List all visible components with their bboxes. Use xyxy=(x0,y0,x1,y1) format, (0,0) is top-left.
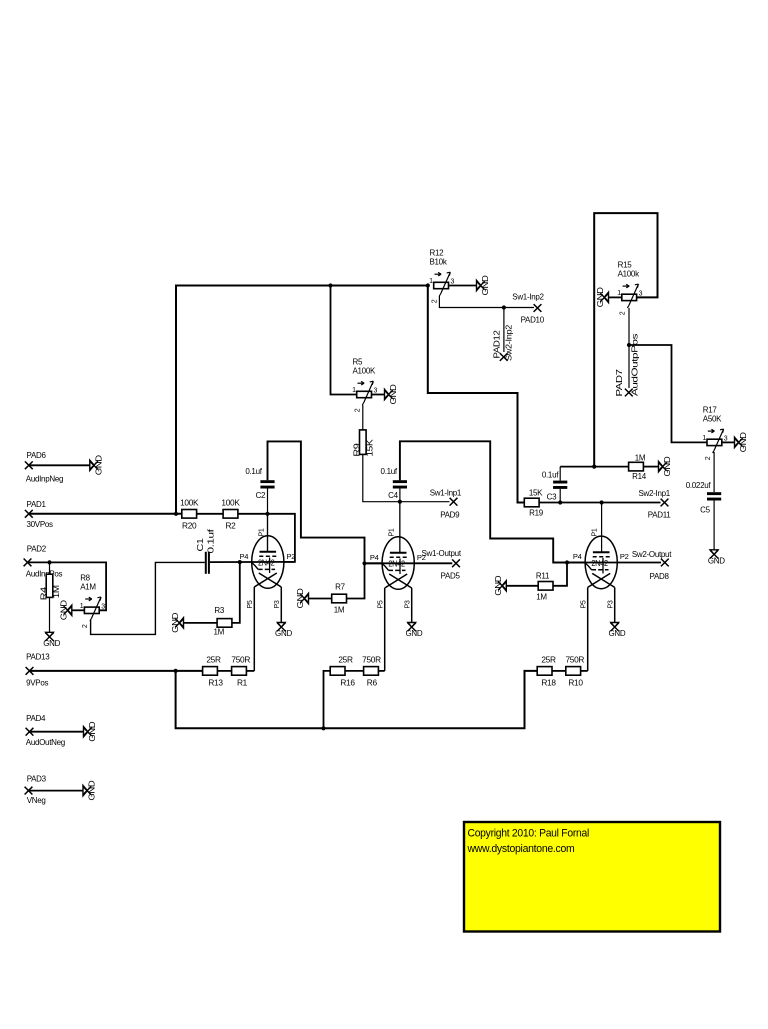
svg-text:C5: C5 xyxy=(700,506,710,515)
wire PAD13 9VPos xyxy=(30,670,203,672)
svg-text:R18: R18 xyxy=(541,678,556,688)
wire PAD4 to GND xyxy=(30,731,84,733)
tube pin P5 lead xyxy=(587,587,589,671)
resistor R2 100K xyxy=(223,510,238,519)
svg-text:Sw2-Output: Sw2-Output xyxy=(632,550,672,559)
ground GND below tube P3 xyxy=(611,623,619,628)
svg-text:3: 3 xyxy=(639,290,643,297)
svg-text:R2: R2 xyxy=(225,521,236,531)
ground GND at PAD4 xyxy=(84,727,88,737)
wire C4 top loop to tube Sw2 P4 xyxy=(400,441,585,562)
wire R16 to R6 xyxy=(345,670,364,672)
svg-text:100K: 100K xyxy=(180,497,199,507)
node junction tube mid P4 xyxy=(362,561,366,565)
svg-text:P5: P5 xyxy=(247,600,254,608)
svg-text:P3: P3 xyxy=(608,600,615,608)
svg-text:AudInpNeg: AudInpNeg xyxy=(26,475,63,484)
svg-text:3: 3 xyxy=(451,279,455,286)
wire R8 pin1 to GND xyxy=(72,609,85,611)
wire top bus (R12 net) xyxy=(176,286,428,514)
svg-text:PAD9: PAD9 xyxy=(440,511,460,520)
tube cathode line xyxy=(399,559,401,575)
resistor R10 750R xyxy=(566,667,581,676)
svg-text:PAD8: PAD8 xyxy=(650,572,670,581)
node junction tube1 P1 xyxy=(265,512,269,516)
capacitor C4 0.1uf xyxy=(393,480,407,483)
svg-text:P1: P1 xyxy=(592,528,599,536)
wire C3 bottom xyxy=(559,489,561,503)
svg-text:GND: GND xyxy=(88,780,97,801)
tube grid hook xyxy=(585,563,592,570)
svg-text:1M: 1M xyxy=(52,585,61,599)
svg-text:2: 2 xyxy=(620,311,627,315)
svg-text:1: 1 xyxy=(702,435,706,442)
ground GND at R8 xyxy=(67,605,71,615)
svg-text:R10: R10 xyxy=(568,678,583,688)
wire R5 pin3 to GND xyxy=(371,394,384,396)
wire R20 to R2 xyxy=(197,513,224,515)
svg-text:GND: GND xyxy=(275,629,292,638)
wire C2 top loop to tube Sw1mid P4 xyxy=(268,441,382,563)
capacitor C3 0.1uf xyxy=(553,481,567,484)
svg-text:VNeg: VNeg xyxy=(27,796,46,805)
node junction tube1 P4 xyxy=(238,560,242,564)
tube ellipse at 398.2 xyxy=(382,537,414,590)
pad X Sw1-Inp1 PAD9 xyxy=(450,498,458,506)
wire C1 to tube1 P4 xyxy=(210,561,295,563)
svg-text:1M: 1M xyxy=(213,628,224,637)
wire R17 pin2 to C5 xyxy=(713,452,715,492)
node junction tube Sw2 P4 xyxy=(565,560,569,564)
wire R4 to GND xyxy=(49,597,51,632)
wire 9V bottom bus xyxy=(176,671,538,728)
svg-text:GND: GND xyxy=(171,612,180,633)
ground GND below R4 xyxy=(46,632,54,637)
tube filament X xyxy=(588,573,611,587)
ground GND below C5 xyxy=(710,550,718,555)
wire R19 to Sw2-Inp1 xyxy=(539,502,660,504)
resistor R19 15K xyxy=(524,498,539,507)
tube grid hook xyxy=(382,563,389,570)
svg-text:Sw1-Output: Sw1-Output xyxy=(422,549,462,558)
svg-text:R5: R5 xyxy=(353,358,363,367)
ground GND below tube P3 xyxy=(277,623,285,628)
svg-text:R11: R11 xyxy=(536,572,550,581)
resistor R18 25R xyxy=(537,667,552,676)
svg-text:3: 3 xyxy=(724,435,728,442)
tube ellipse at 267.8 xyxy=(252,536,284,589)
wire tube3 P2 to Sw2-Output xyxy=(567,562,661,564)
wire R15 pin2 to PAD7 xyxy=(628,308,630,388)
node junction bus mid riser xyxy=(321,726,325,730)
wire PAD1 30VPos xyxy=(29,513,183,515)
svg-text:3: 3 xyxy=(101,603,105,610)
svg-text:750R: 750R xyxy=(362,654,381,664)
svg-text:1: 1 xyxy=(429,278,433,285)
svg-text:C4: C4 xyxy=(388,491,398,500)
svg-text:P4: P4 xyxy=(239,552,248,561)
svg-text:GND: GND xyxy=(88,721,97,742)
resistor R6 750R xyxy=(364,667,379,676)
svg-text:0.1uf: 0.1uf xyxy=(245,467,262,476)
tube plate xyxy=(593,551,610,553)
svg-text:A100K: A100K xyxy=(353,367,376,376)
svg-text:2N42: 2N42 xyxy=(258,559,275,568)
capacitor C1 0.1uf xyxy=(205,552,207,574)
wire R14 to GND xyxy=(643,466,658,468)
svg-text:B10k: B10k xyxy=(430,258,448,267)
wire R6 to tube2 P5 xyxy=(378,670,384,672)
wire R15 loop xyxy=(594,213,657,467)
svg-text:R16: R16 xyxy=(340,678,355,688)
svg-text:R3: R3 xyxy=(214,606,224,615)
svg-text:GND: GND xyxy=(481,275,490,296)
svg-text:R12: R12 xyxy=(430,249,445,258)
tube filament X xyxy=(254,573,276,587)
tube plate xyxy=(260,551,277,553)
resistor R1 750R xyxy=(232,667,247,676)
tube grid dashes lower xyxy=(592,569,609,571)
svg-text:25R: 25R xyxy=(206,654,221,664)
svg-text:AudInpPos: AudInpPos xyxy=(26,570,63,579)
svg-text:Sw2-Inp1: Sw2-Inp1 xyxy=(639,489,671,498)
wire mid riser xyxy=(324,671,331,728)
pad X PAD7 AudOutpPos xyxy=(625,389,633,397)
svg-text:0.1uf: 0.1uf xyxy=(542,471,559,480)
tube plate xyxy=(390,552,407,554)
svg-text:PAD1: PAD1 xyxy=(27,500,47,509)
svg-text:R1: R1 xyxy=(237,678,248,688)
svg-text:PAD13: PAD13 xyxy=(26,653,50,662)
tube pin P3 lead xyxy=(411,588,413,623)
svg-text:PAD3: PAD3 xyxy=(27,775,47,784)
svg-text:R4: R4 xyxy=(39,586,48,600)
ground GND at PAD6 xyxy=(90,460,94,470)
svg-text:C3: C3 xyxy=(547,492,557,501)
tube grid dashes lower xyxy=(389,569,406,571)
tube pin P5 lead xyxy=(384,588,386,671)
svg-text:C2: C2 xyxy=(256,491,266,500)
svg-text:PAD2: PAD2 xyxy=(27,545,47,554)
tube pin P3 lead xyxy=(280,587,282,623)
wire R3 hang xyxy=(232,562,240,623)
wire AudOutpPos to R17 xyxy=(629,345,707,442)
resistor R20 100K xyxy=(182,510,197,519)
svg-text:0.1uf: 0.1uf xyxy=(206,528,215,554)
ground GND at PAD3 xyxy=(83,785,87,795)
ground GND at R12 xyxy=(477,280,481,290)
tube grid dashes upper xyxy=(259,555,276,557)
tube cathode line xyxy=(602,558,604,574)
wire tube1 P1 lead xyxy=(267,514,269,552)
svg-text:3: 3 xyxy=(374,388,378,395)
svg-text:GND: GND xyxy=(94,455,103,476)
svg-text:P4: P4 xyxy=(370,553,379,562)
tube pin P5 lead xyxy=(253,587,255,671)
capacitor C5 0.022uf xyxy=(707,492,721,495)
svg-text:GND: GND xyxy=(708,556,725,565)
svg-text:2: 2 xyxy=(82,624,89,628)
svg-text:AudOutNeg: AudOutNeg xyxy=(26,738,65,747)
svg-text:2: 2 xyxy=(432,299,439,303)
wire tube2 P1 lead xyxy=(399,502,401,552)
node junction PAD12 xyxy=(502,305,506,309)
node junction R15 loop R14 xyxy=(592,465,596,469)
svg-text:2: 2 xyxy=(355,408,362,412)
resistor R14 1M xyxy=(629,462,644,471)
node junction 9V riser xyxy=(174,669,178,673)
pad X PAD6 xyxy=(25,461,33,469)
svg-text:P5: P5 xyxy=(581,600,588,608)
tube grid dashes lower xyxy=(258,568,275,570)
svg-text:PAD5: PAD5 xyxy=(441,572,461,581)
svg-text:GND: GND xyxy=(389,384,398,405)
wire R10 to tube3 P5 xyxy=(581,670,588,672)
resistor R11 1M xyxy=(538,582,553,591)
svg-text:R9: R9 xyxy=(353,443,362,457)
copyright box xyxy=(464,822,720,932)
wire R7 to GND xyxy=(309,598,332,600)
ground GND at R15 xyxy=(604,292,608,302)
wire R8 pin2 to C1 xyxy=(91,562,205,634)
svg-text:Sw1-Inp2: Sw1-Inp2 xyxy=(512,293,544,302)
svg-text:GND: GND xyxy=(59,600,68,621)
svg-text:A100k: A100k xyxy=(618,269,640,278)
svg-text:1M: 1M xyxy=(536,593,547,602)
svg-text:AudOutpPos: AudOutpPos xyxy=(630,334,639,396)
svg-text:R8: R8 xyxy=(80,573,90,582)
pad X PAD13 xyxy=(26,667,34,675)
svg-text:1: 1 xyxy=(352,387,356,394)
svg-text:0.1uf: 0.1uf xyxy=(381,467,398,476)
wire R12 pin1 drop to R19 xyxy=(428,286,525,503)
node junction top wire R12 xyxy=(426,283,430,287)
node junction PAD1 riser xyxy=(174,512,178,516)
wire tube2 P2 to Sw1-Output xyxy=(365,562,453,564)
ground GND at R17 xyxy=(735,437,739,447)
resistor R13 25R xyxy=(203,667,218,676)
svg-text:GND: GND xyxy=(608,629,625,638)
wire C5 to GND xyxy=(713,501,715,550)
svg-text:1M: 1M xyxy=(334,606,345,615)
svg-text:750R: 750R xyxy=(565,654,584,664)
wire tube3 P1 lead xyxy=(601,503,603,552)
svg-text:P3: P3 xyxy=(405,600,412,608)
svg-text:A1M: A1M xyxy=(80,582,96,591)
pad X Sw2-Inp1 PAD11 xyxy=(661,499,669,507)
svg-text:GND: GND xyxy=(43,639,60,648)
wire C3 top xyxy=(559,467,561,481)
wire C2 bottom to tube1 plate xyxy=(267,489,269,552)
svg-text:30VPos: 30VPos xyxy=(27,520,54,529)
wire R1 to tube1 P5 xyxy=(246,670,254,672)
svg-text:GND: GND xyxy=(663,456,672,477)
svg-text:www.dystopiantone.com: www.dystopiantone.com xyxy=(467,843,575,855)
svg-text:GND: GND xyxy=(296,588,305,609)
svg-text:P3: P3 xyxy=(274,600,281,608)
node junction C3 bottom xyxy=(558,500,562,504)
pad X PAD12 Sw2-Inp2 xyxy=(500,353,508,361)
pad X PAD4 xyxy=(26,728,34,736)
resistor R3 1M xyxy=(217,619,232,628)
wire R7 hang xyxy=(346,563,364,598)
tube grid hook xyxy=(252,562,259,569)
pad X PAD2 xyxy=(24,559,32,567)
node junction top wire R5 xyxy=(328,283,332,287)
svg-text:GND: GND xyxy=(405,629,422,638)
svg-text:PAD11: PAD11 xyxy=(648,511,672,520)
svg-text:Sw1-Inp1: Sw1-Inp1 xyxy=(430,488,462,497)
tube ellipse at 601.2 xyxy=(585,536,617,589)
tube cathode line xyxy=(269,558,271,574)
svg-text:C1: C1 xyxy=(196,537,205,551)
tube grid dashes upper xyxy=(593,556,610,558)
pad X PAD3 xyxy=(25,787,33,795)
pad X Sw2-Output PAD8 xyxy=(661,559,669,567)
svg-text:P1: P1 xyxy=(389,528,396,536)
svg-text:R20: R20 xyxy=(182,521,197,531)
svg-text:1: 1 xyxy=(80,603,84,610)
wire R2 to tube1 P2 loop xyxy=(238,514,295,562)
svg-text:2N42: 2N42 xyxy=(591,559,608,568)
wire R17 pin3 to GND xyxy=(722,441,735,443)
svg-text:25R: 25R xyxy=(338,654,353,664)
wire R18 to R10 xyxy=(552,670,566,672)
svg-text:100K: 100K xyxy=(221,497,240,507)
wire R11 hang xyxy=(553,563,567,586)
node junction C4 tube Sw1 P1 xyxy=(398,500,402,504)
svg-text:R6: R6 xyxy=(367,678,378,688)
svg-text:1: 1 xyxy=(617,290,621,297)
wire R3 to GND xyxy=(184,622,218,624)
svg-text:2: 2 xyxy=(705,456,712,460)
node junction tube3 P1 xyxy=(600,500,604,504)
svg-text:R14: R14 xyxy=(632,472,647,481)
wire C4 bottom to tube Sw1 plate xyxy=(399,489,401,552)
wire PAD6 to GND xyxy=(29,464,90,466)
svg-text:15K: 15K xyxy=(365,438,374,456)
svg-text:GND: GND xyxy=(494,575,503,596)
svg-text:PAD10: PAD10 xyxy=(521,316,545,325)
svg-text:PAD7: PAD7 xyxy=(615,368,624,396)
svg-text:9VPos: 9VPos xyxy=(26,679,48,688)
pad X Sw1-Output PAD5 xyxy=(452,559,460,567)
node junction R4 xyxy=(47,560,51,564)
ground GND at R3 xyxy=(179,618,183,628)
svg-text:P2: P2 xyxy=(286,552,295,561)
svg-text:1M: 1M xyxy=(635,454,646,463)
wire PAD3 to GND xyxy=(29,790,84,792)
wire PAD12 drop xyxy=(503,308,505,353)
resistor R9 15K xyxy=(360,430,367,455)
svg-text:GND: GND xyxy=(739,432,748,453)
pad X Sw1-Inp2 PAD10 xyxy=(534,304,542,312)
svg-text:PAD12: PAD12 xyxy=(492,329,501,358)
wire R14 net xyxy=(560,466,628,468)
ground GND below tube P3 xyxy=(408,623,416,628)
ground GND at R5 xyxy=(385,389,389,399)
svg-text:GND: GND xyxy=(596,287,605,308)
svg-text:Copyright 2010: Paul Fornal: Copyright 2010: Paul Fornal xyxy=(468,827,590,839)
wire R13 to R1 xyxy=(217,670,231,672)
node junction AudOutpPos xyxy=(627,343,631,347)
ground GND at R14 xyxy=(659,461,663,471)
tube grid dashes upper xyxy=(390,556,407,558)
svg-text:R15: R15 xyxy=(618,260,633,269)
ground GND at R11 xyxy=(502,581,506,591)
svg-text:PAD4: PAD4 xyxy=(26,714,46,723)
tube filament X xyxy=(385,574,408,588)
svg-text:A50K: A50K xyxy=(703,414,722,423)
wire R12 pin2 to Sw1-Inp2 xyxy=(439,296,534,308)
resistor R7 1M xyxy=(332,594,347,603)
svg-text:750R: 750R xyxy=(231,654,250,664)
svg-text:R19: R19 xyxy=(529,509,544,518)
svg-text:Sw2-Inp2: Sw2-Inp2 xyxy=(505,324,514,361)
pad X PAD1 xyxy=(25,510,33,518)
wire R9 to Sw1-Inp1 xyxy=(363,454,450,501)
wire R15 pin1 to GND xyxy=(609,296,622,298)
svg-text:P1: P1 xyxy=(258,528,265,536)
svg-text:R17: R17 xyxy=(703,405,718,414)
capacitor C2 0.1uf xyxy=(260,480,274,483)
ground GND at R7 xyxy=(304,593,308,603)
wire R11 to GND xyxy=(506,585,538,587)
svg-text:15K: 15K xyxy=(529,488,543,497)
resistor R16 25R xyxy=(330,667,345,676)
wire R5 riser xyxy=(331,286,357,395)
svg-text:R7: R7 xyxy=(335,583,345,592)
svg-text:PAD6: PAD6 xyxy=(27,451,47,460)
svg-text:25R: 25R xyxy=(541,654,556,664)
wire R5 pin2 to R9 xyxy=(362,405,364,430)
svg-text:P4: P4 xyxy=(573,552,582,561)
svg-text:P2: P2 xyxy=(620,552,629,561)
wire R12 pin3 to GND xyxy=(448,285,476,287)
svg-text:0.022uf: 0.022uf xyxy=(686,481,712,490)
tube pin P3 lead xyxy=(614,587,616,622)
resistor R4 1M xyxy=(46,574,53,597)
wire R4 top xyxy=(49,562,51,574)
svg-text:R13: R13 xyxy=(208,678,223,688)
wire PAD2 to R8 pin3 xyxy=(28,562,107,610)
svg-text:P5: P5 xyxy=(378,600,385,608)
